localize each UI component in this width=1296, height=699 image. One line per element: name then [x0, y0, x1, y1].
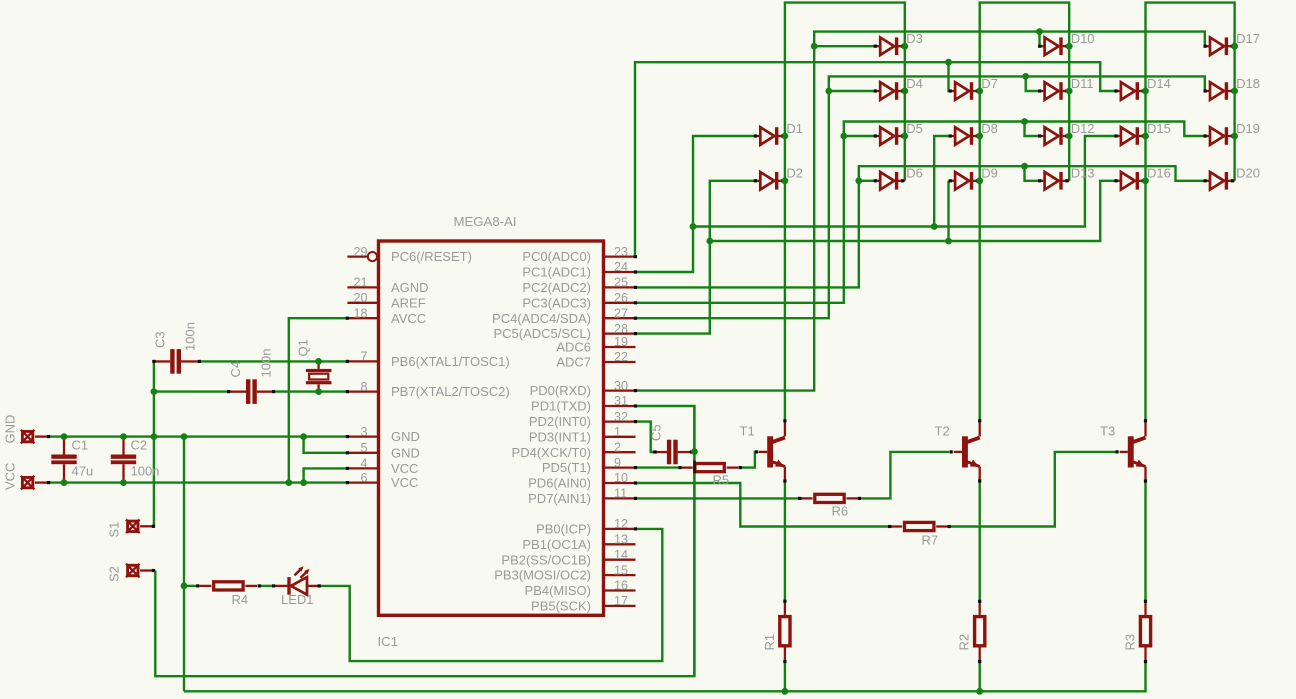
svg-text:100n: 100n — [131, 464, 160, 479]
svg-text:C5: C5 — [649, 424, 664, 441]
svg-text:14: 14 — [614, 548, 628, 562]
junction D19 cathode — [1231, 133, 1238, 140]
svg-text:PC2(ADC2): PC2(ADC2) — [522, 280, 591, 295]
junction gnd vertical 1 — [151, 433, 158, 440]
wire net28 row to D16 — [710, 181, 1117, 241]
svg-text:PB4(MISO): PB4(MISO) — [525, 583, 591, 598]
capacitor C2 — [111, 437, 136, 483]
left pin names — [391, 249, 510, 490]
diode D14 — [1117, 82, 1145, 100]
wire D9 feeder — [947, 181, 949, 241]
svg-text:D1: D1 — [786, 121, 803, 136]
svg-text:PB2(SS/OC1B): PB2(SS/OC1B) — [501, 552, 591, 567]
svg-text:R2: R2 — [957, 634, 972, 651]
svg-text:27: 27 — [614, 306, 628, 320]
svg-text:D12: D12 — [1071, 121, 1095, 136]
junction D1 cathode — [782, 133, 789, 140]
crystal Q1 — [306, 361, 332, 391]
svg-text:PB1(OC1A): PB1(OC1A) — [522, 537, 591, 552]
wire D8 feeder — [934, 136, 950, 227]
diode D11 — [1041, 82, 1069, 100]
wire D11 anode stub — [1026, 76, 1041, 91]
wire T1 emitter to R1 — [784, 481, 786, 601]
wire pin25 to D6 column — [636, 166, 1207, 287]
capacitor C5 — [653, 440, 692, 465]
wire R6 to T2 base — [859, 452, 949, 499]
junction Q1 top — [315, 358, 322, 365]
svg-text:C1: C1 — [72, 438, 89, 453]
supply pad VCC — [21, 476, 48, 490]
svg-text:PC4(ADC4/SDA): PC4(ADC4/SDA) — [492, 311, 591, 326]
diode D2 — [757, 172, 785, 190]
wire VCC rail — [50, 481, 349, 483]
right pin numbers — [614, 245, 628, 608]
diode D7 — [952, 82, 980, 100]
svg-text:PC6(/RESET): PC6(/RESET) — [391, 249, 472, 264]
transistor T1 — [759, 422, 785, 483]
junction D3 anode — [811, 43, 818, 50]
svg-text:AVCC: AVCC — [391, 311, 426, 326]
diode D6 — [877, 172, 905, 190]
svg-text:PC3(ADC3): PC3(ADC3) — [522, 295, 591, 310]
wire D5 anode stub — [844, 135, 876, 137]
diode D1 — [757, 127, 785, 145]
svg-text:5: 5 — [360, 441, 367, 455]
svg-text:PC1(ADC1): PC1(ADC1) — [522, 265, 591, 280]
svg-text:VCC: VCC — [3, 463, 18, 490]
svg-text:T3: T3 — [1100, 424, 1115, 439]
junction D18 cathode — [1231, 88, 1238, 95]
svg-text:28: 28 — [614, 322, 628, 336]
wire D6 anode stub — [859, 180, 876, 182]
IC U1 MEGA8-AI box — [379, 241, 604, 615]
resistor R7 — [890, 522, 948, 530]
svg-text:D2: D2 — [786, 166, 803, 181]
wire D3 anode stub — [814, 45, 876, 47]
svg-text:19: 19 — [614, 335, 628, 349]
wire D7 feeder — [949, 62, 951, 91]
wire D13 anode stub — [1025, 166, 1041, 181]
wire R4 left — [184, 585, 198, 587]
junction D9 feeder end — [945, 238, 952, 245]
junction D10 anode — [1036, 28, 1043, 35]
svg-text:3: 3 — [360, 425, 367, 439]
svg-text:R5: R5 — [713, 473, 730, 488]
wire C3 right to pin7 — [199, 360, 349, 362]
wire VCC pad lead wire — [48, 481, 51, 483]
junction D4 anode — [825, 88, 832, 95]
svg-text:D14: D14 — [1147, 76, 1171, 91]
svg-text:29: 29 — [353, 245, 367, 259]
wire pin26 to D5 column — [636, 122, 1207, 303]
diode D19 — [1206, 127, 1234, 145]
svg-text:PD4(XCK/T0): PD4(XCK/T0) — [512, 445, 591, 460]
junction R2 rail — [976, 688, 983, 695]
svg-text:PB5(SCK): PB5(SCK) — [531, 599, 591, 614]
svg-text:D16: D16 — [1147, 166, 1171, 181]
junction gnd vertical 2 — [181, 433, 188, 440]
transistor T2 — [954, 422, 980, 483]
svg-text:PB7(XTAL2/TOSC2): PB7(XTAL2/TOSC2) — [391, 384, 510, 399]
resistor R1 — [780, 601, 790, 661]
svg-text:C4: C4 — [228, 361, 243, 378]
switch pad S1 — [126, 520, 153, 534]
wire C4 right to pin8 — [274, 390, 350, 392]
svg-text:D7: D7 — [981, 76, 998, 91]
svg-text:GND: GND — [391, 429, 420, 444]
svg-text:R7: R7 — [922, 533, 939, 548]
svg-text:LED1: LED1 — [281, 592, 314, 607]
svg-text:10: 10 — [614, 471, 628, 485]
diode D8 — [952, 127, 980, 145]
diode D18 — [1206, 82, 1234, 100]
junction D17 cathode — [1231, 43, 1238, 50]
svg-text:18: 18 — [353, 306, 367, 320]
wire R2 to rail — [979, 662, 981, 692]
diode D3 — [877, 37, 905, 55]
wire GND pad lead wire — [48, 435, 51, 437]
wire GND down to R4 and rail — [183, 437, 185, 692]
wire bridge2 — [980, 3, 1069, 421]
svg-text:MEGA8-AI: MEGA8-AI — [454, 214, 517, 229]
right pin names — [492, 249, 591, 613]
svg-text:21: 21 — [353, 276, 367, 290]
junction D3 cathode — [901, 43, 908, 50]
svg-text:GND: GND — [391, 445, 420, 460]
svg-text:PB0(ICP): PB0(ICP) — [536, 522, 591, 537]
capacitor C1 — [51, 437, 76, 483]
svg-text:20: 20 — [353, 291, 367, 305]
junction C1 gnd — [61, 433, 68, 440]
svg-text:PB6(XTAL1/TOSC1): PB6(XTAL1/TOSC1) — [391, 354, 510, 369]
wire D4 anode stub — [829, 90, 876, 92]
LED LED1 — [275, 566, 318, 594]
wire pin4 VCC jog — [304, 468, 350, 482]
svg-text:PD3(INT1): PD3(INT1) — [529, 429, 591, 444]
transistor T3 — [1120, 422, 1146, 483]
wire net31 vertical — [693, 406, 695, 676]
svg-text:VCC: VCC — [391, 461, 418, 476]
diode D5 — [877, 127, 905, 145]
wire S2 to net31 — [155, 406, 694, 676]
svg-text:22: 22 — [614, 350, 628, 364]
wire bridge1 — [785, 3, 905, 421]
junction D12 anode — [1021, 118, 1028, 125]
junction D8 feeder end — [931, 223, 938, 230]
junction D15 cathode — [1142, 133, 1149, 140]
junction net24 start — [690, 223, 697, 230]
junction D11 anode — [1022, 73, 1029, 80]
svg-text:D5: D5 — [906, 121, 923, 136]
svg-text:D11: D11 — [1071, 76, 1094, 91]
svg-text:100n: 100n — [183, 322, 198, 351]
svg-text:C2: C2 — [131, 438, 148, 453]
wire C4 row — [154, 390, 229, 392]
svg-text:ADC6: ADC6 — [556, 340, 591, 355]
junction D7 cathode — [976, 88, 983, 95]
svg-text:PD5(T1): PD5(T1) — [542, 460, 591, 475]
svg-text:T1: T1 — [740, 424, 755, 439]
svg-text:D8: D8 — [981, 121, 998, 136]
junction net28 start — [706, 238, 713, 245]
wire pin9 to R5 — [636, 466, 679, 468]
wire pin23 net — [635, 62, 1117, 256]
junction R1 rail — [782, 688, 789, 695]
svg-text:R6: R6 — [832, 504, 849, 519]
wire pin27 to D4 column — [636, 76, 1207, 318]
IC right pin stubs — [604, 257, 636, 606]
junction D2 cathode — [782, 177, 789, 184]
junction C1 vcc — [61, 479, 68, 486]
svg-text:7: 7 — [360, 350, 367, 364]
svg-text:T2: T2 — [935, 424, 950, 439]
svg-text:32: 32 — [614, 410, 628, 424]
junction D9 cathode — [976, 177, 983, 184]
svg-text:PD0(RXD): PD0(RXD) — [530, 383, 591, 398]
wire bottom rail — [184, 662, 1146, 692]
junction Q1 bottom — [315, 388, 322, 395]
svg-text:PD1(TXD): PD1(TXD) — [531, 399, 591, 414]
junction D12 cathode — [1066, 133, 1073, 140]
svg-text:47u: 47u — [72, 464, 94, 479]
diode D13 — [1041, 172, 1069, 190]
svg-text:R4: R4 — [232, 592, 249, 607]
junction avcc vcc — [285, 479, 292, 486]
resistor R5 — [681, 464, 739, 472]
junction C2 vcc — [120, 479, 127, 486]
svg-text:PC0(ADC0): PC0(ADC0) — [522, 249, 591, 264]
resistor R2 — [975, 601, 985, 661]
junction D10 cathode — [1066, 43, 1073, 50]
resistor R6 — [801, 494, 859, 502]
wire R1 to rail — [784, 662, 786, 692]
capacitor C4 — [230, 379, 273, 404]
wire R7 to T3 base — [949, 452, 1115, 527]
resistor R3 — [1140, 601, 1150, 661]
junction pin5 branch — [300, 433, 307, 440]
svg-text:PD7(AIN1): PD7(AIN1) — [528, 491, 591, 506]
wire AVCC to VCC rail — [289, 318, 350, 482]
wire D12 anode stub — [1025, 122, 1041, 137]
diode D4 — [877, 82, 905, 100]
wire D9 anode stub — [949, 180, 951, 182]
junction D6 anode — [855, 177, 862, 184]
supply pad GND — [21, 430, 48, 444]
svg-text:Q1: Q1 — [296, 339, 311, 356]
svg-text:D19: D19 — [1236, 121, 1260, 136]
wire GND rail — [50, 435, 349, 437]
svg-text:31: 31 — [614, 394, 628, 408]
junction D16 cathode — [1142, 177, 1149, 184]
svg-text:1: 1 — [614, 425, 621, 439]
svg-text:D13: D13 — [1071, 166, 1095, 181]
junction C5 net31 — [691, 448, 698, 455]
svg-text:8: 8 — [360, 380, 367, 394]
svg-text:PD2(INT0): PD2(INT0) — [529, 414, 591, 429]
wire over R5 edge dark overlap — [693, 461, 696, 474]
svg-text:100n: 100n — [259, 349, 274, 378]
junction C3 C4 — [151, 388, 158, 395]
junction D5 anode — [840, 133, 847, 140]
svg-text:16: 16 — [614, 579, 628, 593]
diode D17 — [1206, 37, 1234, 55]
diode labels — [786, 31, 1260, 181]
wire pin10 to R7 — [636, 483, 890, 527]
junction pin4 vcc — [300, 479, 307, 486]
junction D11 cathode — [1066, 88, 1073, 95]
wire pin24 net to D1 — [636, 136, 756, 272]
svg-text:17: 17 — [614, 594, 628, 608]
wire R5 to T1 base — [740, 452, 758, 468]
junction D13 anode — [1021, 163, 1028, 170]
svg-text:D18: D18 — [1236, 76, 1260, 91]
svg-text:GND: GND — [3, 415, 18, 444]
junction R4 branch — [181, 583, 188, 590]
junction D5 cathode — [901, 133, 908, 140]
svg-text:13: 13 — [614, 533, 628, 547]
capacitor C3 — [155, 349, 199, 374]
svg-text:15: 15 — [614, 563, 628, 577]
svg-text:D10: D10 — [1071, 31, 1095, 46]
junction D14 cathode — [1142, 88, 1149, 95]
wire pin28 net to D2 — [636, 181, 756, 334]
diode D10 — [1041, 37, 1069, 55]
diode D20 — [1206, 172, 1234, 190]
wire bridge3 — [1146, 3, 1235, 421]
svg-text:D17: D17 — [1236, 31, 1260, 46]
svg-text:D4: D4 — [906, 76, 923, 91]
junction D4 cathode — [901, 88, 908, 95]
wire LED1 to pin12 loop — [319, 529, 662, 661]
left pin numbers — [353, 245, 367, 485]
junction D8 cathode — [976, 133, 983, 140]
svg-text:AREF: AREF — [391, 295, 426, 310]
svg-text:R3: R3 — [1123, 634, 1138, 651]
wire T2 emitter to R2 — [979, 481, 981, 601]
svg-text:26: 26 — [614, 291, 628, 305]
svg-text:D20: D20 — [1236, 166, 1260, 181]
svg-text:AGND: AGND — [391, 280, 429, 295]
junction C2 gnd — [120, 433, 127, 440]
svg-text:S2: S2 — [107, 566, 122, 582]
diode D9 — [952, 172, 980, 190]
svg-text:24: 24 — [614, 260, 628, 274]
svg-text:D6: D6 — [906, 166, 923, 181]
svg-text:11: 11 — [614, 487, 627, 501]
svg-text:D15: D15 — [1147, 121, 1171, 136]
wire pin30 to D3 column — [636, 32, 1207, 391]
IC left pin stubs — [347, 257, 378, 483]
svg-text:4: 4 — [360, 457, 367, 471]
svg-text:23: 23 — [614, 245, 628, 259]
switch pad S2 — [126, 564, 153, 578]
svg-text:12: 12 — [614, 517, 628, 531]
svg-text:25: 25 — [614, 276, 628, 290]
svg-text:R1: R1 — [762, 634, 777, 651]
svg-text:S1: S1 — [107, 522, 122, 538]
svg-text:D9: D9 — [981, 166, 998, 181]
svg-text:ADC7: ADC7 — [556, 355, 591, 370]
svg-text:VCC: VCC — [391, 475, 418, 490]
wire pin5 GND jog — [304, 437, 350, 453]
svg-text:2: 2 — [614, 440, 621, 454]
svg-text:PD6(AIN0): PD6(AIN0) — [528, 476, 591, 491]
wire C3 C4 gnd vertical — [153, 361, 155, 526]
wire net24 row to D15 — [693, 136, 1117, 227]
svg-text:6: 6 — [360, 471, 367, 485]
wire pin11 to R6 — [636, 497, 800, 499]
svg-text:IC1: IC1 — [378, 634, 399, 649]
svg-text:C3: C3 — [153, 331, 168, 348]
junction pin23 branch — [945, 59, 952, 66]
diode D12 — [1041, 127, 1069, 145]
svg-text:PB3(MOSI/OC2): PB3(MOSI/OC2) — [494, 568, 591, 583]
wire R4 to LED1 — [259, 585, 273, 587]
diode D15 — [1117, 127, 1145, 145]
svg-text:30: 30 — [614, 379, 628, 393]
wire pin32 to C5 left — [636, 422, 655, 452]
pin 29 inversion bubble — [368, 252, 377, 261]
wire D10 anode stub — [1040, 32, 1041, 47]
wire T3 emitter to R3 — [1144, 481, 1146, 601]
svg-text:9: 9 — [614, 456, 621, 470]
resistor R4 — [200, 582, 258, 590]
svg-text:D3: D3 — [906, 31, 923, 46]
diode D16 — [1117, 172, 1145, 190]
